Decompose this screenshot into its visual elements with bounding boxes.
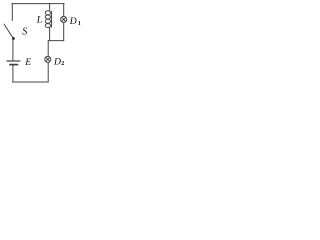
- svg-text:L: L: [36, 15, 42, 26]
- wire lamp D2 to bottom rail: [47, 63, 49, 82]
- lamp D2 cross: [46, 57, 50, 61]
- lamp D1 cross: [62, 17, 66, 21]
- battery E short plate: [10, 64, 18, 66]
- wire middle branch lower (coil to junction): [49, 28, 51, 41]
- svg-text:D: D: [69, 16, 77, 27]
- wire right branch upper: [63, 4, 65, 17]
- svg-text:2: 2: [61, 61, 64, 67]
- lamp D1 circle: [61, 16, 67, 22]
- wire switch to battery: [12, 40, 14, 61]
- wire middle branch upper (top rail to coil): [49, 4, 51, 11]
- switch S blade: [4, 24, 13, 38]
- lamp D2 circle: [45, 56, 51, 62]
- battery E long plate: [7, 60, 20, 62]
- wire battery to bottom rail: [12, 66, 14, 83]
- wire lower middle branch to lamp D2: [47, 41, 49, 56]
- wire top rail: [12, 3, 64, 5]
- inductor L right strand line: [51, 11, 53, 27]
- inductor L coil loops: [45, 11, 50, 15]
- switch S pivot dot: [12, 37, 15, 40]
- wire bottom rail: [12, 81, 48, 83]
- wire lamp D1 to middle horizontal: [63, 23, 65, 41]
- wire middle horizontal (junction to right branch): [49, 40, 64, 42]
- wire left branch upper (to switch): [11, 4, 13, 21]
- svg-text:1: 1: [78, 21, 81, 27]
- svg-text:S: S: [22, 27, 27, 38]
- svg-text:E: E: [24, 57, 31, 68]
- svg-text:D: D: [53, 56, 61, 67]
